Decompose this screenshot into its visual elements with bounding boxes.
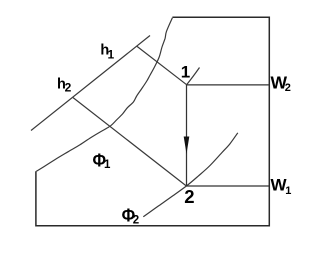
svg-text:1: 1 [285, 185, 291, 197]
phi1 curve fragment through point 1 [187, 68, 200, 85]
phi2 curve through point 2 [143, 133, 238, 217]
svg-text:2: 2 [285, 82, 291, 94]
arrowhead [184, 137, 190, 155]
chart border (top, right, bottom, left axes) [36, 17, 269, 226]
saturation curve (phi=100%) [36, 18, 172, 172]
svg-text:1: 1 [104, 159, 111, 171]
W1 horizontal line from point 2 [186, 185, 269, 187]
svg-text:1: 1 [181, 62, 190, 81]
enthalpy line h1 branch to point 1 [137, 46, 187, 85]
W2 horizontal line from point 1 [187, 84, 270, 86]
svg-text:2: 2 [184, 186, 194, 207]
svg-text:2: 2 [65, 80, 72, 94]
enthalpy line h2 branch to point 2 [73, 98, 186, 187]
svg-text:2: 2 [133, 215, 139, 227]
process arrow shaft 1 to 2 [186, 85, 188, 186]
svg-text:1: 1 [108, 48, 115, 62]
diagonal reference line through J1,J2 (enthalpy direction line) [31, 36, 150, 131]
